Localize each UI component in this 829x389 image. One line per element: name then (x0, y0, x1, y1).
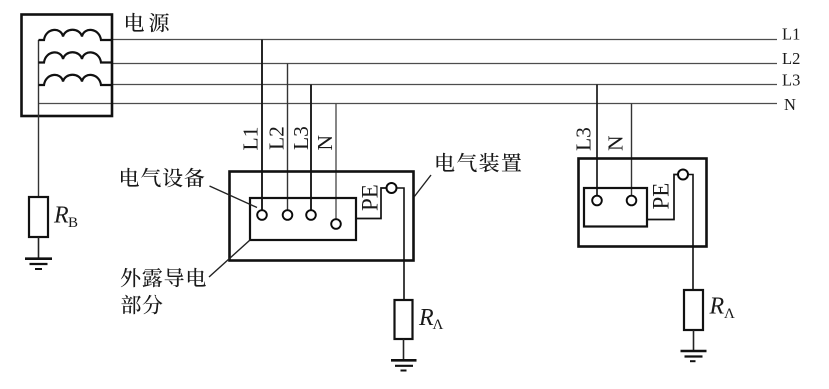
svg-text:PE: PE (358, 184, 383, 211)
svg-text:N: N (604, 135, 628, 151)
svg-text:L3: L3 (782, 71, 800, 90)
svg-text:L3: L3 (289, 126, 313, 150)
svg-text:L1: L1 (239, 127, 263, 151)
svg-text:R: R (53, 203, 69, 229)
svg-text:L2: L2 (265, 126, 289, 150)
svg-text:R: R (709, 294, 725, 320)
svg-text:L1: L1 (782, 25, 800, 44)
svg-text:B: B (68, 215, 78, 231)
svg-text:PE: PE (649, 183, 674, 210)
svg-text:Λ: Λ (433, 317, 444, 333)
svg-text:Λ: Λ (724, 306, 735, 322)
svg-text:N: N (784, 95, 796, 114)
svg-text:L3: L3 (572, 127, 596, 151)
svg-text:N: N (313, 135, 337, 151)
svg-text:L2: L2 (782, 49, 800, 68)
